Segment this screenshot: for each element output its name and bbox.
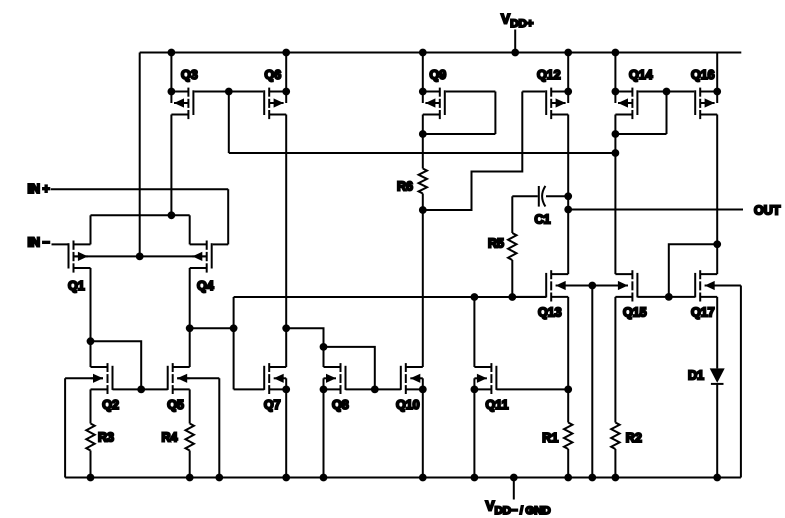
svg-text:R5: R5: [488, 237, 504, 251]
resistor R1: [564, 423, 572, 478]
transistor Q1: [69, 241, 91, 273]
wire Q7 drain tap to Q8: [286, 328, 323, 347]
junction Q11 gate at R1 top: [564, 386, 572, 394]
wire Q3 gate lead: [194, 91, 228, 93]
wire Q8 source to rail: [323, 389, 325, 477]
wire Q14 gate to drain tie: [615, 92, 666, 135]
VDD- terminal stub: [513, 478, 515, 500]
junction Q1 drain / Q2 gate tie: [87, 337, 95, 345]
svg-text:Q15: Q15: [623, 305, 647, 319]
transistor Q16: [695, 53, 717, 120]
wire Q2 source to R3: [90, 389, 92, 423]
transistor Q17: [695, 270, 717, 301]
label Q17: [691, 305, 715, 319]
capacitor C1: [539, 186, 568, 207]
transistor Q13: [546, 270, 568, 301]
wire Q14/Q16 gate link: [667, 91, 695, 93]
resistor R5: [508, 233, 516, 260]
wire Q9 gate to drain loop: [423, 92, 496, 135]
resistor R2: [611, 423, 619, 478]
junction Q8/Q10 gate node: [371, 386, 379, 394]
junction Q9 source at rail: [419, 49, 427, 57]
svg-text:Q12: Q12: [537, 68, 561, 82]
svg-text:IN +: IN +: [28, 182, 50, 196]
wire Q1 source up: [90, 215, 92, 244]
wire Q8 gate tie: [324, 347, 375, 390]
wire Q6 gate lead: [229, 91, 263, 93]
junction Q6 source at rail: [282, 49, 290, 57]
wire Q15 source to R2: [614, 297, 616, 423]
junction mid node: [230, 324, 238, 332]
wire Q11 source to rail: [473, 389, 475, 477]
svg-text:R6: R6: [397, 180, 413, 194]
transistor Q10: [401, 363, 427, 394]
wire R5 bottom lead: [511, 260, 513, 297]
junction Q9 source/body: [419, 88, 427, 96]
label C1: [535, 213, 551, 227]
label R5: [488, 237, 504, 251]
junction Q3/Q6 gate node: [225, 88, 233, 96]
transistor Q5: [168, 363, 190, 394]
svg-text:Q6: Q6: [265, 68, 282, 82]
wire body tie to rail: [591, 286, 593, 478]
transistor Q8: [320, 363, 346, 394]
svg-text:IN −: IN −: [28, 236, 50, 250]
junction R3 at bottom rail: [87, 474, 95, 482]
wire Q16 drain down: [716, 115, 718, 245]
svg-text:Q9: Q9: [430, 68, 447, 82]
wire Q17 source to D1: [716, 297, 718, 369]
svg-text:Q7: Q7: [264, 398, 281, 412]
junction R2 at bottom rail: [612, 474, 620, 482]
label Q3: [181, 68, 198, 82]
junction Q8 source at bottom rail: [320, 474, 328, 482]
label Q7: [264, 398, 281, 412]
junction Q6 source/body: [282, 88, 290, 96]
svg-text:Q2: Q2: [102, 398, 119, 412]
label VDD+: [501, 12, 534, 31]
junction Q14 source at rail: [612, 49, 620, 57]
junction VDD+ stub on rail: [511, 49, 519, 57]
svg-text:V: V: [501, 12, 510, 27]
wire IN- to Q1 gate: [52, 243, 69, 245]
junction gate link: [665, 293, 673, 301]
wire Q4 gate lead: [213, 243, 229, 245]
label Q2: [102, 398, 119, 412]
transistor Q6: [264, 53, 286, 120]
svg-text:Q17: Q17: [691, 305, 715, 319]
junction Q3 source at rail: [168, 49, 176, 57]
label OUT: [754, 204, 781, 218]
wire input pair body tie: [74, 255, 207, 257]
wire R6 bottom to Q12 gate (staircase): [423, 92, 523, 211]
label Q11: [486, 398, 509, 412]
label Q14: [629, 68, 653, 82]
wire Q8 drain down: [323, 347, 325, 367]
wire Q8/Q10 gate line: [346, 388, 401, 390]
junction input pair body to rail: [136, 253, 144, 261]
junction Q11 source at bottom rail: [471, 474, 479, 482]
wire Q5 source to R4: [189, 389, 191, 423]
wire Q1 drain down: [90, 268, 92, 341]
power rail VDD-/GND: [65, 477, 741, 479]
label Q15: [623, 305, 647, 319]
svg-text:DD− / GND: DD− / GND: [495, 505, 551, 517]
junction Q9 drain/loop: [419, 130, 427, 138]
svg-text:Q13: Q13: [538, 305, 562, 319]
wire gate node down: [228, 92, 230, 154]
wire Q12 gate lead: [522, 91, 545, 93]
junction Q10 source at bottom rail: [419, 474, 427, 482]
svg-text:R3: R3: [98, 430, 114, 444]
svg-text:R4: R4: [162, 430, 178, 444]
label D1: [688, 368, 704, 382]
junction Q6/Q7 drain tap: [282, 324, 290, 332]
wire Q7 gate drop: [234, 328, 265, 389]
junction Q16 source/body: [713, 88, 721, 96]
label Q5: [167, 398, 184, 412]
label Q10: [396, 398, 420, 412]
junction Q8 drain/gate tie: [320, 343, 328, 351]
junction Q3 source/body: [168, 88, 176, 96]
wire Q5 drain up: [189, 328, 191, 367]
wire Q2 drain-gate tie: [91, 341, 142, 389]
wire Q15/Q17 gate line: [637, 296, 695, 298]
wire Q14 gate lead: [638, 91, 666, 93]
junction Q5 body at bottom rail: [215, 474, 223, 482]
wire R6 node down to Q10 drain: [422, 210, 424, 367]
svg-text:R2: R2: [626, 431, 642, 445]
junction body tie: [588, 282, 596, 290]
label Q6: [265, 68, 282, 82]
junction Q7 source at bottom rail: [282, 474, 290, 482]
transistor Q7: [264, 363, 290, 394]
wire Q13 gate lead: [512, 296, 546, 298]
junction R5 bottom at mid line: [508, 293, 516, 301]
svg-text:Q10: Q10: [396, 398, 420, 412]
transistor Q15: [615, 270, 637, 301]
wire VDD+ rail to input pair body: [139, 53, 141, 257]
diode D1: [710, 368, 725, 477]
wire gate link to Q16 drain: [669, 244, 717, 297]
svg-text:Q14: Q14: [629, 68, 653, 82]
junction Q14 drain/gate tie: [612, 130, 620, 138]
junction OUT tap: [564, 206, 572, 214]
svg-text:D1: D1: [688, 368, 704, 382]
junction D1 at bottom rail: [713, 474, 721, 482]
label Q1: [68, 279, 85, 293]
label IN+: [28, 182, 50, 196]
resistor R6: [419, 169, 427, 211]
label R3: [98, 430, 114, 444]
junction VDD- stub at bottom rail: [510, 474, 518, 482]
svg-text:Q1: Q1: [68, 279, 85, 293]
label Q8: [332, 398, 349, 412]
wire Q15 drain up: [614, 153, 616, 274]
svg-text:R1: R1: [542, 431, 558, 445]
label R6: [397, 180, 413, 194]
wire Q17 body to rail: [705, 286, 741, 478]
wire Q4 drain down: [189, 268, 191, 328]
junction Q2 gate tie: [137, 386, 145, 394]
wire Q13/Q15 body tie: [556, 285, 628, 287]
VDD+ terminal stub: [514, 30, 516, 53]
svg-text:Q3: Q3: [181, 68, 198, 82]
label Q4: [197, 279, 214, 293]
junction R6 bottom node: [419, 206, 427, 214]
junction Q14 drain/bias line: [612, 149, 620, 157]
junction Q11 drain at mid line: [471, 293, 479, 301]
resistor R4: [186, 424, 194, 478]
transistor Q14: [615, 53, 637, 120]
wire Q10 source to rail: [422, 389, 424, 477]
wire Q1 drain to Q2 drain: [90, 341, 92, 367]
junction Q3 drain at source link: [168, 211, 176, 219]
junction Q16/Q17 drain node: [713, 240, 721, 248]
transistor Q11: [471, 363, 497, 394]
wire R5 to C1: [512, 196, 538, 233]
wire Q2 body to rail: [65, 378, 103, 477]
label R4: [162, 430, 178, 444]
wire Q2/Q5 gate line: [113, 388, 168, 390]
wire Q5 body to rail: [177, 378, 219, 477]
svg-text:V: V: [486, 499, 495, 514]
label Q16: [691, 68, 715, 82]
wire drain node to mid line: [190, 297, 234, 328]
junction Q12 source at rail: [564, 49, 572, 57]
junction R4 at bottom rail: [186, 474, 194, 482]
label VDD-/GND: [486, 499, 551, 518]
wire Q9 drain down: [422, 115, 424, 169]
svg-text:OUT: OUT: [754, 204, 781, 218]
wire Q4 source up: [189, 215, 191, 244]
transistor Q4: [190, 241, 212, 273]
transistor Q12: [546, 53, 568, 120]
label R2: [626, 431, 642, 445]
wire Q11 drain up to mid line: [473, 297, 475, 367]
transistor Q9: [423, 53, 445, 120]
wire Q3 drain down: [170, 115, 172, 216]
wire Q12 drain down to Q13: [567, 115, 569, 275]
junction C1 at Q12 drain: [564, 192, 572, 200]
svg-text:DD+: DD+: [510, 18, 533, 30]
wire OUT: [568, 209, 743, 211]
junction R1 at bottom rail: [564, 474, 572, 482]
junction Q14 source/body: [612, 88, 620, 96]
svg-text:Q5: Q5: [167, 398, 184, 412]
label Q13: [538, 305, 562, 319]
label IN&#8722;: [28, 236, 50, 250]
power rail VDD+: [140, 52, 742, 54]
resistor R3: [86, 424, 94, 478]
svg-text:C1: C1: [535, 213, 551, 227]
wire mid line: [234, 296, 547, 298]
wire IN+: [51, 189, 228, 244]
label Q9: [430, 68, 447, 82]
wire Q7 source to rail: [285, 389, 287, 477]
transistor Q3: [171, 53, 193, 120]
label Q12: [537, 68, 561, 82]
junction Q4/Q5 drain node: [186, 324, 194, 332]
wire Q14 drain down: [614, 115, 616, 154]
wire Q11 gate line: [496, 388, 568, 390]
svg-text:Q11: Q11: [486, 398, 509, 412]
junction Q12 source/body: [564, 88, 572, 96]
junction body tie at bottom rail: [588, 474, 596, 482]
wire Q13 source to R1: [567, 297, 569, 423]
wire bias line to Q14 drain: [229, 152, 616, 154]
svg-text:Q4: Q4: [197, 279, 214, 293]
wire Q17 drain up: [716, 244, 718, 274]
svg-text:Q16: Q16: [691, 68, 715, 82]
transistor Q2: [91, 363, 113, 394]
junction Q14/Q16 gate node: [663, 88, 671, 96]
label R1: [542, 431, 558, 445]
wire Q6 drain down to Q7: [285, 115, 287, 368]
wire source link: [91, 214, 190, 216]
svg-text:Q8: Q8: [332, 398, 349, 412]
